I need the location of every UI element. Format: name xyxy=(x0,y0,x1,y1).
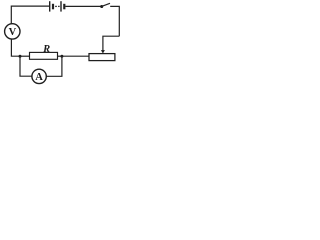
wire jog left at right side xyxy=(103,36,119,50)
rheostat body xyxy=(89,54,115,61)
wire ammeter branch left: down and right xyxy=(20,56,32,76)
switch blade xyxy=(103,3,110,6)
battery dashed continuation xyxy=(55,5,57,7)
battery cell 2 short thick plate xyxy=(63,4,65,10)
svg-text:V: V xyxy=(9,27,17,38)
wire top-left from voltmeter up and right to battery xyxy=(11,6,49,24)
junction node right of R xyxy=(60,55,63,58)
wire ammeter branch right: right and up xyxy=(46,56,62,76)
wire switch fixed contact to top-right corner and down right side xyxy=(110,6,119,36)
battery cell 1 long plate xyxy=(49,1,51,11)
wire battery to switch xyxy=(65,5,100,7)
svg-text:R: R xyxy=(42,44,50,55)
wire resistor left lead xyxy=(20,55,30,57)
ammeter A xyxy=(32,69,46,83)
svg-text:A: A xyxy=(35,72,43,83)
battery cell 1 short thick plate xyxy=(52,4,54,10)
wire junction to resistor right lead xyxy=(58,55,62,57)
rheostat slider arrowhead xyxy=(101,50,105,53)
battery cell 2 long plate xyxy=(60,1,62,11)
junction node left of R xyxy=(19,55,22,58)
wire voltmeter bottom to left junction xyxy=(11,39,20,56)
wire rheostat left terminal to junction xyxy=(62,55,89,57)
switch pivot terminal xyxy=(100,5,103,8)
voltmeter V xyxy=(5,24,20,39)
resistor R body xyxy=(30,52,58,59)
